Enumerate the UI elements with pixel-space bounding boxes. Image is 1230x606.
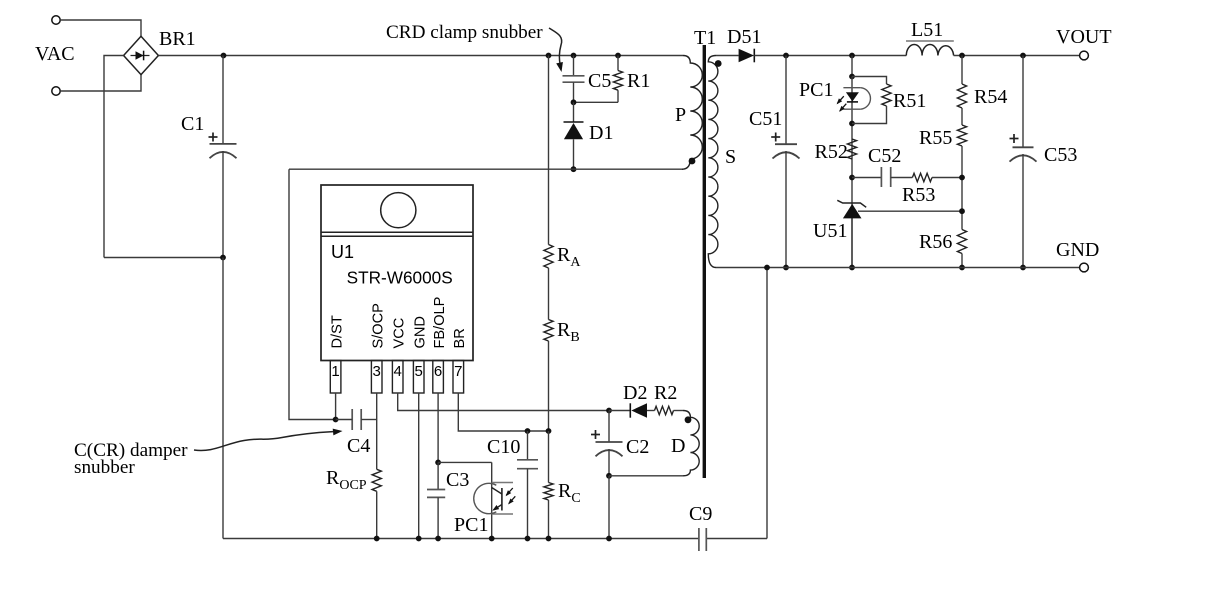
label C1: [181, 113, 204, 135]
node junction: [546, 53, 552, 59]
inductor L51: [906, 41, 954, 56]
node junction: [959, 265, 965, 271]
wire: [437, 393, 439, 462]
bridge rectifier BR1: [124, 36, 159, 74]
label GND: [1056, 239, 1099, 261]
capacitor C5: [563, 76, 585, 82]
wire: [437, 462, 439, 489]
label R51: [893, 90, 926, 112]
node VAC input terminal (bottom): [52, 87, 60, 95]
wire: [376, 393, 378, 469]
label ROCP: [326, 467, 367, 493]
wire: [891, 177, 913, 179]
label R53: [902, 184, 935, 206]
wire: [647, 410, 655, 412]
wire: [527, 431, 529, 460]
svg-text:FB/OLP: FB/OLP: [432, 297, 448, 349]
node junction: [333, 417, 339, 423]
node junction: [416, 536, 422, 542]
wire: [961, 254, 963, 268]
label VAC: [35, 43, 75, 65]
node junction: [1020, 265, 1026, 271]
svg-text:R54: R54: [974, 86, 1007, 108]
capacitor C10: [517, 460, 538, 469]
wire: [223, 538, 699, 540]
light arrows into PC1: [506, 488, 516, 505]
capacitor C2: [591, 430, 623, 456]
label C51: [749, 108, 782, 130]
node junction: [783, 53, 789, 59]
node junction: [435, 536, 441, 542]
label D2: [623, 382, 647, 404]
node junction: [849, 74, 855, 80]
transformer T1 core: [703, 45, 706, 478]
label C4: [347, 435, 370, 457]
node junction: [546, 428, 552, 434]
wire: [573, 139, 575, 169]
wire: [961, 108, 963, 125]
wire: [674, 410, 684, 412]
wire: [548, 431, 550, 483]
wire: [104, 56, 124, 258]
svg-text:D2: D2: [623, 382, 647, 404]
resistor R53: [912, 173, 932, 181]
op-amp U1 package outline: [321, 185, 473, 361]
label R56: [919, 231, 952, 253]
svg-text:R51: R51: [893, 90, 926, 112]
wire: [418, 393, 420, 539]
light arrows out of PC1 LED: [837, 96, 847, 112]
svg-text:RC: RC: [558, 480, 581, 506]
node junction: [606, 408, 612, 414]
resistor R52: [847, 139, 856, 159]
transistor PC1 phototransistor: [474, 483, 513, 515]
node D winding polarity dot: [685, 416, 692, 423]
node S winding polarity dot: [715, 60, 722, 67]
label C2: [626, 436, 649, 458]
svg-text:C4: C4: [347, 435, 370, 457]
capacitor C52: [881, 167, 890, 187]
label BR1: [159, 28, 196, 50]
diode D1: [564, 122, 584, 139]
svg-text:3: 3: [373, 363, 381, 380]
node junction: [489, 536, 495, 542]
wire: [617, 90, 619, 102]
pin 4 (VCC) of U1: [392, 318, 408, 393]
svg-text:C2: C2: [626, 436, 649, 458]
wire: [608, 449, 610, 476]
transformer T1 primary winding P: [682, 56, 702, 170]
node GND terminal: [1080, 263, 1089, 272]
capacitor C53: [1010, 134, 1037, 162]
svg-text:BR: BR: [452, 328, 468, 348]
capacitor C51: [771, 133, 799, 159]
resistor R54: [957, 84, 966, 108]
svg-text:VCC: VCC: [392, 318, 408, 349]
wire: [289, 169, 336, 419]
label C3: [446, 469, 469, 491]
svg-text:7: 7: [454, 363, 462, 380]
label PC1: [799, 79, 833, 101]
wire: [932, 177, 962, 179]
node junction: [606, 536, 612, 542]
wire: [608, 411, 610, 443]
node junction: [849, 175, 855, 181]
wire: [617, 56, 619, 71]
label VOUT: [1056, 26, 1112, 48]
wire: [376, 491, 378, 538]
wire: [573, 56, 575, 76]
wire: [851, 56, 853, 77]
node junction: [959, 53, 965, 59]
label P: [675, 104, 686, 126]
label R54: [974, 86, 1007, 108]
wire: [851, 218, 853, 267]
svg-text:D51: D51: [727, 26, 761, 48]
node junction: [1020, 53, 1026, 59]
diode D2: [630, 403, 647, 417]
svg-text:R2: R2: [654, 382, 677, 404]
svg-text:R56: R56: [919, 231, 952, 253]
node junction: [435, 460, 441, 466]
label C53: [1044, 144, 1077, 166]
label C(CR) damper snubber: [74, 440, 188, 478]
label R52: [815, 141, 848, 163]
wire: [1022, 56, 1024, 148]
node VAC input terminal (top): [52, 16, 60, 24]
wire: [766, 268, 768, 539]
svg-text:P: P: [675, 104, 686, 126]
pin 5 (GND) of U1: [413, 316, 429, 393]
svg-text:C51: C51: [749, 108, 782, 130]
label R2: [654, 382, 677, 404]
resistor R1: [613, 71, 622, 91]
transformer T1 auxiliary winding D: [683, 411, 699, 476]
svg-text:snubber: snubber: [74, 457, 135, 478]
node VOUT terminal: [1080, 51, 1089, 60]
svg-text:C10: C10: [487, 436, 520, 458]
wire: [852, 177, 881, 179]
svg-text:6: 6: [434, 363, 442, 380]
wire leader arrow: [194, 429, 343, 451]
shunt regulator U51: [837, 200, 866, 218]
wire: [60, 20, 141, 37]
node junction: [764, 265, 770, 271]
pin 1 (D/ST) of U1: [329, 315, 345, 393]
svg-text:U51: U51: [813, 220, 847, 242]
svg-text:R53: R53: [902, 184, 935, 206]
wire: [60, 74, 141, 91]
wire: [222, 56, 224, 144]
node junction: [783, 265, 789, 271]
diode D51: [739, 49, 755, 63]
node junction: [606, 473, 612, 479]
svg-text:S/OCP: S/OCP: [371, 303, 387, 348]
wire: [548, 341, 550, 431]
diode PC1 LED: [843, 88, 870, 110]
wire: [785, 151, 787, 268]
svg-text:D1: D1: [589, 122, 613, 144]
svg-text:RA: RA: [557, 244, 581, 270]
resistor ROCP: [372, 469, 381, 491]
svg-text:R1: R1: [627, 70, 650, 92]
wire: [458, 393, 548, 431]
svg-text:4: 4: [394, 363, 402, 380]
svg-text:D/ST: D/ST: [329, 315, 345, 348]
svg-text:C3: C3: [446, 469, 469, 491]
svg-text:5: 5: [415, 363, 423, 380]
node junction: [525, 536, 531, 542]
pin 7 (BR) of U1: [452, 328, 468, 393]
label R1: [627, 70, 650, 92]
wire: [398, 393, 609, 411]
svg-text:C5: C5: [588, 70, 611, 92]
pin 6 (FB/OLP) of U1: [432, 297, 448, 393]
svg-text:GND: GND: [413, 316, 429, 348]
wire: [852, 77, 887, 85]
node junction: [849, 53, 855, 59]
node junction: [220, 255, 226, 261]
wire: [548, 56, 550, 245]
wire: [608, 476, 610, 539]
node junction: [959, 208, 965, 214]
node junction: [615, 53, 621, 59]
svg-text:C9: C9: [689, 503, 712, 525]
wire: [754, 55, 906, 57]
wire: [716, 55, 739, 57]
resistor RB: [544, 320, 553, 342]
node junction: [849, 121, 855, 127]
svg-text:L51: L51: [911, 19, 943, 41]
label D51: [727, 26, 761, 48]
svg-text:STR-W6000S: STR-W6000S: [347, 268, 453, 288]
label D1: [589, 122, 613, 144]
wire: [573, 82, 575, 102]
node junction: [571, 53, 577, 59]
svg-text:GND: GND: [1056, 239, 1099, 261]
capacitor C9: [699, 528, 706, 551]
node junction: [959, 175, 965, 181]
wire: [1022, 154, 1024, 268]
label RA: [557, 244, 581, 270]
wire: [954, 55, 1080, 57]
svg-text:PC1: PC1: [454, 514, 488, 536]
wire: [548, 268, 550, 320]
label D: [671, 435, 685, 457]
label C10: [487, 436, 520, 458]
resistor RA: [544, 245, 553, 269]
wire: [706, 538, 767, 540]
resistor RC: [544, 483, 553, 501]
node junction: [546, 536, 552, 542]
node junction: [849, 265, 855, 271]
transformer T1 secondary winding S: [708, 56, 718, 268]
label PC1: [454, 514, 488, 536]
label C9: [689, 503, 712, 525]
label U51: [813, 220, 847, 242]
svg-text:C53: C53: [1044, 144, 1077, 166]
svg-text:VOUT: VOUT: [1056, 26, 1112, 48]
svg-text:1: 1: [331, 363, 339, 380]
wire: [548, 500, 550, 539]
wire: [158, 55, 683, 57]
svg-text:C52: C52: [868, 145, 901, 167]
pin 3 (S/OCP) of U1: [371, 303, 387, 393]
label R55: [919, 127, 952, 149]
label L51: [911, 19, 943, 41]
label RC: [558, 480, 581, 506]
wire: [491, 462, 493, 538]
capacitor C3: [427, 490, 445, 498]
resistor R56: [957, 230, 966, 254]
resistor R55: [957, 125, 966, 146]
label U1: [331, 242, 354, 262]
wire: [574, 101, 619, 103]
svg-text:S: S: [725, 146, 736, 168]
label STR-W6000S: [347, 268, 453, 288]
svg-text:R52: R52: [815, 141, 848, 163]
resistor R2: [655, 406, 674, 414]
svg-text:R55: R55: [919, 127, 952, 149]
wire: [716, 267, 1080, 269]
wire: [961, 146, 963, 230]
wire: [222, 258, 224, 539]
svg-text:CRD clamp snubber: CRD clamp snubber: [386, 22, 543, 43]
wire: [961, 56, 963, 85]
wire: [785, 56, 787, 145]
wire: [852, 106, 887, 124]
node junction: [571, 99, 577, 105]
wire: [851, 77, 853, 268]
svg-text:C1: C1: [181, 113, 204, 135]
wire: [527, 469, 529, 539]
wire: [609, 475, 683, 477]
svg-text:RB: RB: [557, 319, 580, 345]
capacitor C1: [209, 133, 237, 159]
label C5: [588, 70, 611, 92]
svg-text:ROCP: ROCP: [326, 467, 367, 493]
wire: [336, 419, 353, 421]
resistor R51: [882, 84, 891, 106]
node P winding polarity dot: [689, 158, 696, 165]
wire: [335, 393, 337, 420]
wire: [609, 410, 630, 412]
wire leader arrow: [549, 28, 563, 72]
wire: [361, 419, 377, 421]
wire: [104, 257, 223, 259]
wire: [438, 461, 492, 463]
svg-text:D: D: [671, 435, 685, 457]
label C52: [868, 145, 901, 167]
capacitor C4: [352, 409, 361, 430]
svg-text:PC1: PC1: [799, 79, 833, 101]
label S: [725, 146, 736, 168]
svg-text:VAC: VAC: [35, 43, 75, 65]
node junction: [221, 53, 227, 59]
node junction: [571, 166, 577, 172]
node junction: [374, 536, 380, 542]
wire U51 ref: [858, 210, 962, 212]
wire: [222, 151, 224, 258]
wire: [289, 168, 683, 170]
label T1: [694, 27, 716, 49]
svg-text:BR1: BR1: [159, 28, 196, 50]
node junction: [525, 428, 531, 434]
label CRD clamp snubber: [386, 22, 543, 43]
wire: [437, 497, 439, 538]
wire: [573, 102, 575, 122]
svg-text:U1: U1: [331, 242, 354, 262]
label RB: [557, 319, 580, 345]
